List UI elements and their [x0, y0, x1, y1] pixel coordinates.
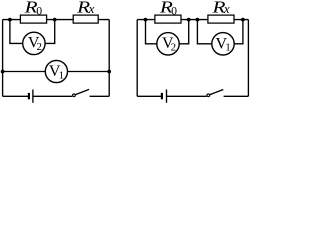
wire: bottom wire battery to switch	[33, 95, 72, 97]
svg-text:2: 2	[171, 41, 177, 53]
wire: bottom wire battery to switch	[167, 95, 207, 97]
svg-text:0: 0	[171, 4, 177, 18]
voltmeter V2 (left circuit)	[23, 32, 45, 54]
node dot (right of Rx, right circuit)	[241, 18, 245, 22]
node dot (right of R0, right circuit)	[187, 18, 191, 22]
svg-text:x: x	[223, 1, 230, 16]
wire: middle wire left of V1	[3, 71, 46, 73]
wire: bottom wire right of switch	[224, 95, 249, 97]
switch (right circuit)	[207, 90, 223, 97]
node dot (middle wire right)	[107, 70, 111, 74]
resistor R0 (right circuit)	[155, 15, 181, 23]
node dot (left of R0)	[8, 18, 12, 22]
wire: middle wire right of V1	[68, 71, 110, 73]
node dot (left of R0, right circuit)	[144, 18, 148, 22]
svg-text:0: 0	[36, 4, 42, 18]
node dot (middle wire left)	[1, 70, 5, 74]
node dot (left of Rx, right circuit)	[196, 18, 200, 22]
wire: left outer wire	[2, 20, 4, 97]
label R0 (right circuit)	[159, 0, 177, 18]
wire: top wire	[3, 19, 110, 21]
svg-text:x: x	[88, 1, 95, 16]
wire: V1 branch right vertical	[234, 20, 243, 44]
wire: bottom wire left of battery	[3, 95, 29, 97]
wire: V2 branch right vertical	[45, 20, 55, 44]
svg-text:2: 2	[37, 41, 43, 53]
battery (left circuit)	[29, 90, 33, 103]
resistor R0 (left circuit)	[20, 15, 46, 23]
resistor Rx (left circuit)	[73, 15, 98, 23]
wire: V2 branch right vertical	[179, 20, 189, 44]
wire: top wire	[137, 19, 248, 21]
wire: right outer wire	[247, 20, 249, 97]
battery (right circuit)	[162, 90, 167, 103]
wire: V2 branch left vertical	[10, 20, 23, 44]
wire: left outer wire	[136, 20, 138, 97]
wire: V1 branch left vertical	[197, 20, 212, 44]
node dot (right of R0)	[53, 18, 57, 22]
voltmeter V1 (right circuit)	[212, 33, 234, 55]
voltmeter V1 (left circuit)	[45, 60, 67, 82]
label Rx (left circuit)	[76, 0, 95, 17]
wire: bottom wire left of battery	[137, 95, 162, 97]
wire: right outer wire	[108, 20, 110, 97]
switch (left circuit)	[73, 89, 90, 96]
voltmeter V2 (right circuit)	[157, 33, 179, 55]
label Rx (right circuit)	[211, 0, 230, 17]
svg-text:1: 1	[59, 70, 65, 82]
label R0 (left circuit)	[23, 0, 42, 18]
resistor Rx (right circuit)	[208, 15, 234, 23]
wire: bottom wire right of switch	[90, 95, 110, 97]
svg-text:1: 1	[225, 42, 231, 54]
wire: V2 branch left vertical	[146, 20, 157, 44]
